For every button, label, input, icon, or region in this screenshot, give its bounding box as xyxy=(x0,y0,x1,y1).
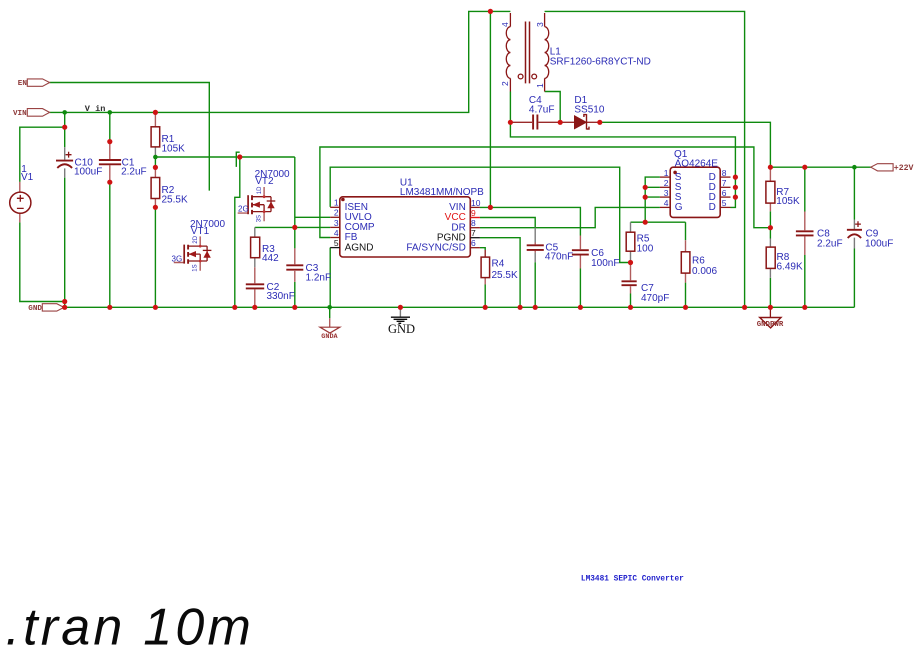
resistor R1 xyxy=(151,112,185,157)
svg-text:2G: 2G xyxy=(238,205,249,214)
capacitor C7 xyxy=(622,263,670,305)
svg-text:100nF: 100nF xyxy=(591,258,619,269)
svg-text:C6: C6 xyxy=(591,248,604,259)
junction C4 right D1 anode xyxy=(558,120,563,125)
svg-text:1: 1 xyxy=(334,198,339,208)
svg-text:3: 3 xyxy=(664,188,669,198)
wire C1 column xyxy=(109,112,111,307)
global label VIN xyxy=(13,109,50,119)
wire Q1 source bus xyxy=(645,177,660,222)
junction Q1 D pin8 xyxy=(733,175,738,180)
wire C7 bottom to bus xyxy=(630,294,632,308)
wire R6 bottom to bus xyxy=(685,283,687,308)
svg-text:6.49K: 6.49K xyxy=(777,262,803,273)
U1 pin 7 PGND xyxy=(470,237,480,239)
junction D1 cathode xyxy=(597,120,602,125)
wire EN net xyxy=(50,83,210,191)
resistor R7 xyxy=(766,167,800,211)
svg-text:GND: GND xyxy=(28,305,42,313)
global label EN xyxy=(18,79,50,88)
svg-text:1: 1 xyxy=(535,83,545,88)
wire COMP row xyxy=(255,226,330,228)
junction bus C1 xyxy=(107,305,112,310)
svg-text:7: 7 xyxy=(722,178,727,188)
wire C8 column xyxy=(804,167,806,307)
wire R4 bottom to bus xyxy=(484,285,486,308)
wire DR to Q1 gate xyxy=(480,207,660,227)
svg-text:AO4264E: AO4264E xyxy=(675,158,719,169)
wire C3 bottom to bus xyxy=(294,282,296,307)
junction Q1 S pin2 xyxy=(643,185,648,190)
U1 pin 3 COMP xyxy=(330,226,340,228)
junction bus C5 xyxy=(533,305,538,310)
global label GND xyxy=(28,304,64,314)
wire V1 top xyxy=(20,127,65,182)
svg-text:8: 8 xyxy=(471,218,476,228)
U1 pin 2 UVLO xyxy=(330,216,340,218)
junction Q1 D pin7 xyxy=(733,185,738,190)
wire ISEN net xyxy=(330,167,630,262)
wire Q1 drain strap xyxy=(731,177,736,207)
junction bus PGND xyxy=(518,305,523,310)
capacitor C10 (polarized) xyxy=(56,147,102,177)
wire R1 to R2 link xyxy=(154,157,156,167)
svg-text:4: 4 xyxy=(664,198,669,208)
svg-text:VT1: VT1 xyxy=(191,226,210,237)
junction COMP node xyxy=(292,225,297,230)
wire FA/SYNC/SD to R4 xyxy=(480,248,485,250)
svg-text:SS510: SS510 xyxy=(574,104,604,115)
svg-text:G: G xyxy=(675,202,683,213)
U1 pin 4 FB xyxy=(330,237,340,239)
Q1 pin 2 S xyxy=(660,186,670,188)
svg-text:+22V: +22V xyxy=(894,164,914,173)
junction +22V rail C9 xyxy=(852,165,857,170)
wire VIN rail to transformer pin4 xyxy=(50,11,511,112)
wire VIN riser to U1 pin10 xyxy=(489,11,491,207)
Q1 pin 3 S xyxy=(660,196,670,198)
svg-text:100uF: 100uF xyxy=(74,167,102,178)
svg-text:25.5K: 25.5K xyxy=(492,270,518,281)
ground symbol GNDA xyxy=(320,307,340,341)
U1 pin 10 VIN xyxy=(470,206,480,208)
junction Q1 D pin6 xyxy=(733,195,738,200)
junction bus C6 xyxy=(578,305,583,310)
Q1 pin 4 G xyxy=(660,206,670,208)
U1 pin 9 VCC xyxy=(470,217,480,219)
wire FB net xyxy=(320,147,771,238)
wire transformer pin3 to ground xyxy=(545,11,745,307)
resistor R5 xyxy=(626,222,654,262)
Q1 pin 7 D xyxy=(720,186,730,188)
junction bus C7 xyxy=(628,305,633,310)
U1 pin 8 DR xyxy=(470,227,480,229)
junction R5 bottom C7 top xyxy=(628,260,633,265)
ground symbol GND xyxy=(388,307,415,336)
Q1 pin 6 D xyxy=(720,196,730,198)
transistor VT1 2N7000 xyxy=(172,219,226,272)
svg-text:3: 3 xyxy=(535,22,545,27)
wire junction riser to ground bus xyxy=(235,157,240,307)
Q1 pin 8 D xyxy=(720,176,730,178)
svg-text:2: 2 xyxy=(500,81,510,86)
svg-text:100: 100 xyxy=(637,243,654,254)
wire C6 bottom to bus xyxy=(579,269,581,308)
capacitor C1 xyxy=(99,142,147,183)
junction R1 R2 divider xyxy=(153,155,158,160)
U1 pin 6 FA/SYNC/SD xyxy=(470,247,480,249)
svg-text:1: 1 xyxy=(664,168,669,178)
junction bus C3 xyxy=(292,305,297,310)
wire ground bus xyxy=(64,306,855,308)
wire R7 bottom link xyxy=(769,211,771,227)
U1 pin 5 AGND xyxy=(330,247,340,249)
junction C1 bottom pin xyxy=(107,180,112,185)
junction bus AGND xyxy=(327,305,332,310)
capacitor C3 xyxy=(286,248,331,283)
wire UVLO riser xyxy=(294,157,296,248)
wire R6 riser xyxy=(685,222,687,240)
wire R8 top link xyxy=(769,228,771,239)
junction R2 bottom pin xyxy=(153,205,158,210)
svg-text:25.5K: 25.5K xyxy=(162,195,188,206)
U1 pin 1 ISEN xyxy=(330,206,340,208)
resistor R3 xyxy=(251,227,280,267)
svg-text:VT2: VT2 xyxy=(255,176,274,187)
wire V1 bottom xyxy=(20,222,65,301)
resistor R6 xyxy=(681,240,717,282)
svg-text:1D: 1D xyxy=(257,186,263,194)
junction bus R6 xyxy=(683,305,688,310)
svg-text:7: 7 xyxy=(471,228,476,238)
resistor R2 xyxy=(151,167,188,207)
junction bus GND symbol xyxy=(398,305,403,310)
junction bus C10 xyxy=(62,305,67,310)
junction bus C2 xyxy=(252,305,257,310)
junction bus R2 xyxy=(153,305,158,310)
wire transformer pin1 to C4 xyxy=(545,92,561,123)
svg-text:2: 2 xyxy=(334,208,339,218)
capacitor C9 (polarized) xyxy=(847,220,893,250)
svg-text:LM3481MM/NOPB: LM3481MM/NOPB xyxy=(400,187,484,198)
transistor Q1 AO4264E xyxy=(660,149,731,217)
svg-text:AGND: AGND xyxy=(345,242,374,253)
svg-text:LM3481 SEPIC Converter: LM3481 SEPIC Converter xyxy=(581,576,684,584)
svg-text:.tran 10m: .tran 10m xyxy=(6,599,254,657)
svg-text:GNDPWR: GNDPWR xyxy=(757,321,784,329)
wire switch node C4 to Q1 drain xyxy=(510,122,735,177)
svg-text:3G: 3G xyxy=(172,255,183,264)
svg-text:4.7uF: 4.7uF xyxy=(529,104,555,115)
junction VIN rail / C1 xyxy=(108,110,113,115)
IC U1 LM3481MM/NOPB xyxy=(330,177,484,257)
junction bus divider riser xyxy=(232,305,237,310)
junction bus R4 xyxy=(483,305,488,310)
wire PGND to bus xyxy=(480,238,520,308)
capacitor C5 xyxy=(527,228,574,263)
wire AGND vertical xyxy=(329,248,331,308)
ground symbol GNDPWR xyxy=(757,307,784,329)
svg-text:2.2uF: 2.2uF xyxy=(817,239,843,250)
wire R2 bottom to bus xyxy=(154,207,156,307)
wire +22V rail xyxy=(770,166,871,168)
svg-text:470nF: 470nF xyxy=(545,252,573,263)
svg-text:SRF1260-6R8YCT-ND: SRF1260-6R8YCT-ND xyxy=(550,57,651,68)
capacitor C8 xyxy=(796,212,843,256)
Q1 pin 5 D xyxy=(720,206,730,208)
svg-text:4: 4 xyxy=(500,22,510,27)
svg-text:8: 8 xyxy=(722,168,727,178)
junction divider row riser xyxy=(237,154,242,159)
wire D1 out to +22V rail xyxy=(600,122,771,167)
global label +22V xyxy=(871,164,914,174)
junction bus C8 xyxy=(802,305,807,310)
svg-text:5: 5 xyxy=(334,238,339,248)
junction VIN rail / R1 xyxy=(153,110,158,115)
junction VIN rail / V1 wire xyxy=(62,110,67,115)
wire transformer pin2 down xyxy=(509,92,511,123)
svg-text:0.006: 0.006 xyxy=(692,266,717,277)
svg-text:442: 442 xyxy=(262,253,279,264)
diode D1 SS510 (schottky) xyxy=(560,95,605,130)
svg-text:1S: 1S xyxy=(192,264,198,271)
junction +22V rail R7 xyxy=(768,165,773,170)
junction V1 top / C10 xyxy=(62,125,67,130)
junction C1 top pin xyxy=(107,139,112,144)
capacitor C6 xyxy=(572,236,620,270)
capacitor C2 xyxy=(246,267,295,307)
svg-text:105K: 105K xyxy=(162,144,186,155)
wire R1-R2 junction row xyxy=(155,156,294,158)
svg-text:GNDA: GNDA xyxy=(321,333,338,341)
svg-text:R4: R4 xyxy=(492,259,505,270)
svg-text:3: 3 xyxy=(334,218,339,228)
svg-text:9: 9 xyxy=(471,208,476,218)
svg-text:2D: 2D xyxy=(193,235,199,243)
junction V1 bottom C10 xyxy=(62,299,67,304)
svg-text:2: 2 xyxy=(664,178,669,188)
svg-text:2.2uF: 2.2uF xyxy=(121,167,147,178)
svg-text:1.2nF: 1.2nF xyxy=(306,273,332,284)
svg-text:4: 4 xyxy=(334,228,339,238)
svg-text:5: 5 xyxy=(722,198,727,208)
svg-text:6: 6 xyxy=(722,188,727,198)
resistor R8 xyxy=(766,239,803,278)
wire UVLO horizontal xyxy=(295,216,330,218)
wire source node row xyxy=(631,221,686,223)
svg-text:V1: V1 xyxy=(21,172,34,183)
svg-text:470pF: 470pF xyxy=(641,293,669,304)
junction top line to U1 VIN riser xyxy=(488,9,493,14)
svg-text:105K: 105K xyxy=(776,196,800,207)
junction R2 top pin xyxy=(153,165,158,170)
transistor VT2 2N7000 xyxy=(238,169,290,222)
wire C5 bottom to bus xyxy=(534,262,536,307)
svg-text:V in: V in xyxy=(85,104,106,114)
wire U1 VIN pin10 to C6 xyxy=(480,207,581,235)
wire VCC to C5 xyxy=(480,218,535,228)
svg-text:FA/SYNC/SD: FA/SYNC/SD xyxy=(406,242,465,253)
wire C9 column xyxy=(853,167,855,307)
svg-text:3S: 3S xyxy=(256,215,262,222)
junction Q1 S pin3 xyxy=(643,195,648,200)
junction bus R8 GNDPWR xyxy=(768,305,773,310)
Q1 pin 1 S xyxy=(660,176,670,178)
junction switch node C4 left xyxy=(508,120,513,125)
resistor R4 xyxy=(481,250,518,285)
capacitor C4 xyxy=(510,95,560,130)
wire jog at junction xyxy=(236,152,239,167)
svg-text:10: 10 xyxy=(471,198,481,208)
junction U1 VIN pin10 xyxy=(488,205,493,210)
svg-text:100uF: 100uF xyxy=(865,239,893,250)
svg-text:D: D xyxy=(709,202,716,213)
svg-text:VIN: VIN xyxy=(13,110,27,118)
wire R8 bottom to bus xyxy=(769,278,771,307)
svg-text:EN: EN xyxy=(18,80,28,88)
junction source node xyxy=(643,220,648,225)
junction +22V rail C8 xyxy=(802,165,807,170)
svg-text:R6: R6 xyxy=(692,256,705,267)
svg-text:6: 6 xyxy=(471,238,476,248)
svg-text:330nF: 330nF xyxy=(267,291,295,302)
voltage source V1 xyxy=(10,164,34,223)
svg-text:GND: GND xyxy=(388,322,415,336)
transformer L1 xyxy=(500,13,651,92)
junction FB divider R7 R8 xyxy=(768,225,773,230)
wire C10 column xyxy=(64,112,66,307)
junction bus transformer return xyxy=(742,305,747,310)
